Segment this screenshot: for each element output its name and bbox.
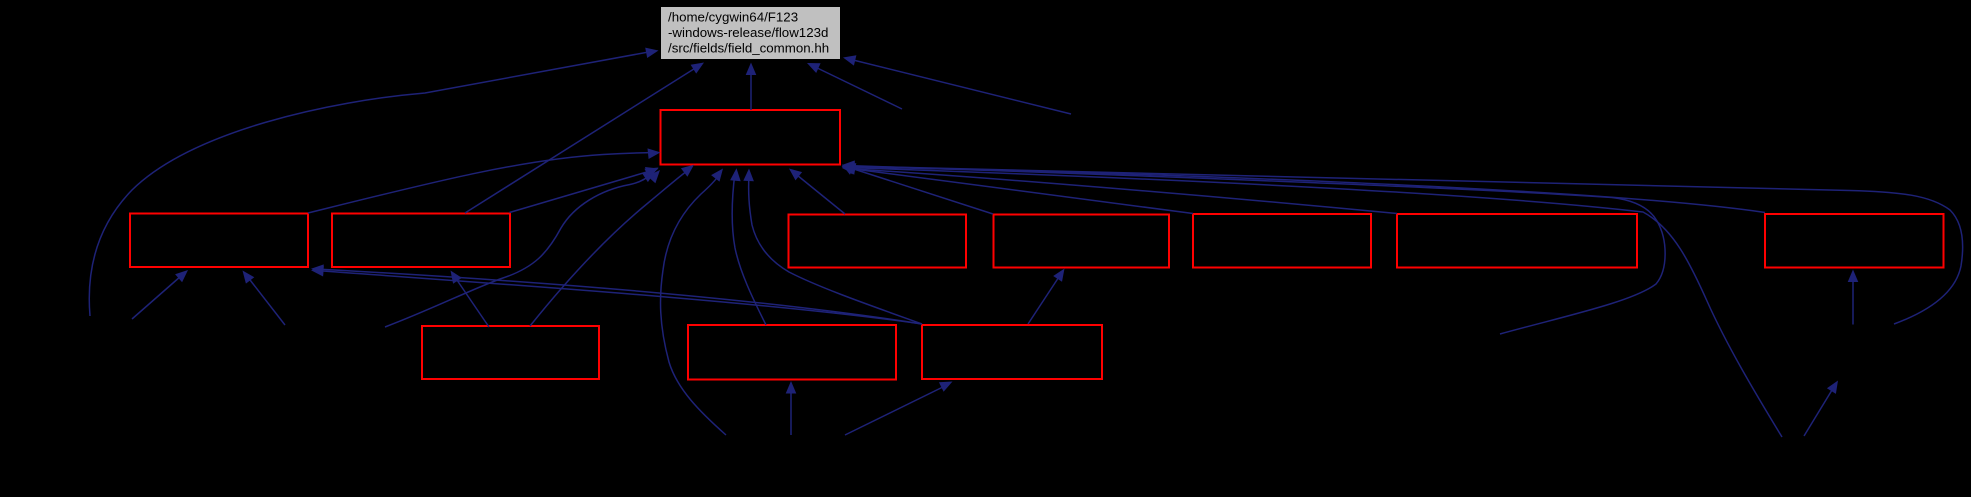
- arrowhead cluster mass at N1 bottom-right corner: [842, 163, 857, 175]
- edge J->D: [1028, 269, 1065, 325]
- edge D->N1 (corner): [842, 164, 993, 214]
- svg-text:/src/fields/field_common.hh: /src/fields/field_common.hh: [668, 41, 829, 56]
- edge P1->A: [132, 270, 188, 319]
- edge P5->N1 (around G): [842, 161, 1963, 324]
- node N1 hub (row1) (red box): [661, 110, 841, 165]
- edge P3->N1 (S around B corner): [385, 171, 656, 327]
- node B (row2-2) (red box): [332, 214, 510, 268]
- edge R4->N1 (gap diagonal): [842, 163, 1782, 437]
- edge J->A (corner) 1: [311, 266, 922, 324]
- node G (row2-7) (red box): [1765, 214, 1944, 268]
- edge P2->A: [243, 271, 286, 326]
- edge R1->N1 (gap curve): [661, 169, 726, 436]
- edge R5->P5 (invisible): [1804, 381, 1838, 437]
- arrowhead cluster mass at N1 bottom-left corner: [644, 168, 660, 184]
- edge J->N1 (under C): [743, 169, 922, 325]
- edge C->N1: [789, 169, 845, 215]
- node F (row2-6) (red box): [1397, 214, 1637, 268]
- edge P5b->G: [1848, 270, 1859, 325]
- edge P1->root (long left curve): [89, 48, 658, 316]
- edge E->N1 (corner): [842, 163, 1193, 213]
- edge J->A (corner) 2: [311, 264, 922, 324]
- node J (row3-3) (red box): [922, 325, 1102, 379]
- edge R2->I: [786, 381, 797, 435]
- edge B->root: [465, 63, 704, 214]
- edge H->N1: [530, 165, 694, 326]
- node E (row2-5) (red box): [1193, 214, 1371, 268]
- svg-text:/home/cygwin64/F123: /home/cygwin64/F123: [668, 10, 798, 25]
- edge N1->root: [746, 63, 757, 111]
- node A (row2-1) (red box): [130, 214, 308, 268]
- node H (row3-1) (red box): [422, 326, 599, 379]
- svg-text:-windows-release/flow123d: -windows-release/flow123d: [668, 25, 828, 40]
- edge F->N1 (corner): [842, 164, 1397, 214]
- edge P4->N1 (around F): [842, 160, 1665, 334]
- node C (row2-3) (red box): [789, 215, 967, 268]
- edge B->N1 (corner): [510, 167, 659, 213]
- node field_common.hh (grey root): [661, 7, 841, 60]
- edge G->N1 (corner): [842, 162, 1765, 213]
- node D (row2-4) (red box): [994, 215, 1170, 268]
- edge H->B: [451, 271, 490, 328]
- node I (row3-2) (red box): [688, 325, 896, 380]
- edge Q1->root: [807, 63, 902, 109]
- edge I->N1: [730, 168, 766, 325]
- edge Q2->root: [843, 55, 1071, 114]
- edge A->N1 (left edge): [308, 148, 661, 213]
- edge R3->J: [845, 382, 953, 436]
